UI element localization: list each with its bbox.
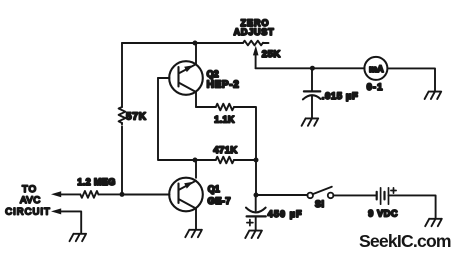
svg-text:SI: SI [315,199,325,209]
ground meter [425,92,442,99]
wire meter to ground [387,68,435,90]
transistor Q1 [169,178,203,212]
svg-text:1.2 MEG: 1.2 MEG [77,177,115,187]
capacitor C .015uF [311,68,313,91]
svg-text:Q1: Q1 [208,184,220,194]
svg-text:AVC: AVC [20,195,41,206]
wire lower arrow stub [61,211,82,232]
resistor R 1.2 MEG zigzag [80,191,98,198]
arrow to AVC circuit [51,191,61,197]
node junction 471K right [254,158,259,163]
node junction 471K left [193,158,198,163]
meter M mA [364,57,387,80]
wire main rail to 1.2MEG [98,193,122,195]
wire 1.1K branch left [196,106,216,108]
wire Q2 emitter lead [195,92,197,107]
wire Q2 base to node at 471K left [158,78,193,160]
battery B 9VDC [376,192,378,200]
node junction main base rail [120,192,125,197]
svg-text:25K: 25K [262,49,281,60]
wire top rail right stub [263,42,269,44]
node junction top rail [193,41,198,46]
plus sign 450uF [247,220,253,226]
wire wiper rail to meter [256,67,365,69]
wire 450uF to ground [255,218,257,230]
ground .015uF [302,118,319,125]
node junction bottom rail [254,193,259,198]
wire 1.1K branch right + down [234,107,256,160]
svg-text:450 µF: 450 µF [268,209,303,219]
resistor 57K zigzag [119,107,126,123]
svg-text:TO: TO [22,184,37,195]
node junction .015 tap [310,66,315,71]
svg-text:GE-7: GE-7 [208,196,231,207]
wire top rail left segment [122,42,243,44]
svg-text:.015 µF: .015 µF [322,91,359,102]
svg-text:mA: mA [369,64,384,74]
ground lower-left [70,234,87,241]
svg-text:471K: 471K [213,145,237,156]
svg-text:1.1K: 1.1K [214,115,235,125]
wire battery to ground [389,195,436,217]
wire right vertical to bottom node [255,160,257,195]
wire Q1 emitter lead [195,209,197,229]
wire left vertical rail upper [121,43,123,107]
resistor R 471K zigzag [216,157,234,164]
wire Q1 collector lead [195,160,197,178]
transistor Q2 [169,61,203,95]
svg-text:Q2: Q2 [207,69,219,79]
svg-text:SeekIC.com: SeekIC.com [359,231,451,251]
ground 450uF [245,231,262,238]
svg-text:HEP-2: HEP-2 [207,80,240,91]
wire 471K right stub [234,159,256,161]
wire to AVC arrow [61,193,81,195]
capacitor C 450uF bottom plate [247,215,266,217]
ground Q1 emitter [185,230,202,237]
wire Q2 collector lead [195,43,197,64]
arrow lower ground stub [51,208,61,214]
svg-text:ADJUST: ADJUST [234,27,275,37]
capacitor C 450uF top arc plate [255,195,257,211]
resistor R 1.1K zigzag [216,104,234,111]
svg-text:CIRCUIT: CIRCUIT [5,206,51,217]
switch S1 [307,193,313,199]
wire 471K left stub [195,159,216,161]
wiper arrow of 25K pot [255,54,257,68]
potentiometer R 25K ZERO ADJUST zigzag [243,41,263,46]
svg-text:57K: 57K [126,112,147,123]
ground battery [425,219,442,226]
svg-text:9 VDC: 9 VDC [368,209,398,219]
svg-text:0-1: 0-1 [367,82,384,93]
wire left vertical rail lower (dashed scan bit then solid) [121,123,123,128]
plus sign battery [391,188,396,193]
wire switch to battery [333,194,375,196]
wire bottom rail to switch [256,194,308,196]
